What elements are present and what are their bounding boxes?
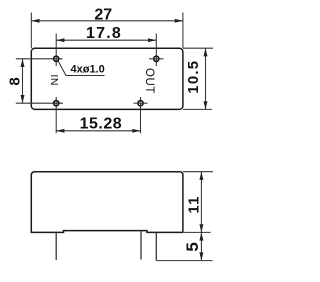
pin right rear xyxy=(140,231,142,260)
centerline tick hole top-right xyxy=(149,58,164,60)
arrow 8 bottom xyxy=(21,95,25,103)
svg-text:11: 11 xyxy=(186,195,203,213)
extension line 15.28 left (through bottom-left hole) xyxy=(55,97,57,133)
dimension line 11 xyxy=(200,172,202,233)
pin right front xyxy=(155,232,157,260)
extension line 5 bottom (pin tip) xyxy=(156,260,212,262)
side view body outline with standoff feet xyxy=(31,172,183,233)
dimension line 5 xyxy=(200,232,202,260)
dimension line 27 xyxy=(31,20,183,22)
arrow 27 left xyxy=(31,19,39,23)
arrow 17.8 right xyxy=(148,38,156,42)
svg-text:5: 5 xyxy=(183,242,202,251)
hole top-left xyxy=(54,56,59,61)
extension line 11 top (body top extended) xyxy=(183,171,213,173)
hole top-right xyxy=(154,56,159,61)
extension line 11 bottom / 5 top xyxy=(184,231,211,233)
hole bottom-right xyxy=(138,101,143,106)
svg-text:IN: IN xyxy=(48,74,60,86)
dimension line 15.28 xyxy=(56,130,140,132)
arrow 27 right xyxy=(175,19,183,23)
arrow 17.8 left xyxy=(56,38,64,42)
extension line 27 left xyxy=(30,13,32,49)
leader line for hole callout xyxy=(58,61,104,75)
arrow 15.28 right xyxy=(132,129,140,133)
centerline tick hole bottom-right xyxy=(134,102,148,104)
extension line 8 top xyxy=(16,58,63,60)
svg-text:15.28: 15.28 xyxy=(80,116,123,133)
extension line 17.8 right xyxy=(155,34,157,67)
extension line 10.5 top (body edge extended) xyxy=(183,47,213,49)
svg-text:8: 8 xyxy=(6,76,23,86)
svg-text:10.5: 10.5 xyxy=(185,60,202,94)
arrow 10.5 top xyxy=(204,48,208,56)
top view package body xyxy=(31,48,183,109)
dimension line 17.8 xyxy=(56,39,156,41)
dimension line 10.5 xyxy=(205,48,207,109)
svg-text:OUT: OUT xyxy=(143,68,155,94)
arrow 11 top xyxy=(199,172,203,180)
extension line 27 right xyxy=(182,13,184,49)
arrow 5 bottom xyxy=(199,252,203,260)
arrow 11 bottom xyxy=(199,224,203,232)
extension line 15.28 right (through bottom-right hole) xyxy=(140,97,142,133)
extension line 17.8 left xyxy=(55,34,57,67)
svg-text:17.8: 17.8 xyxy=(86,25,122,42)
pin left (two overlapping) xyxy=(55,232,57,260)
svg-text:27: 27 xyxy=(94,6,112,23)
arrow 10.5 bottom xyxy=(204,101,208,109)
svg-text:4xø1.0: 4xø1.0 xyxy=(71,63,105,75)
arrow 5 top xyxy=(199,232,203,240)
hole bottom-left xyxy=(54,101,59,106)
dimension line 8 xyxy=(22,59,24,103)
arrow 8 top xyxy=(21,59,25,67)
arrow 15.28 left xyxy=(56,129,64,133)
extension line 8 bottom xyxy=(16,102,63,104)
extension line 10.5 bottom xyxy=(183,108,212,110)
